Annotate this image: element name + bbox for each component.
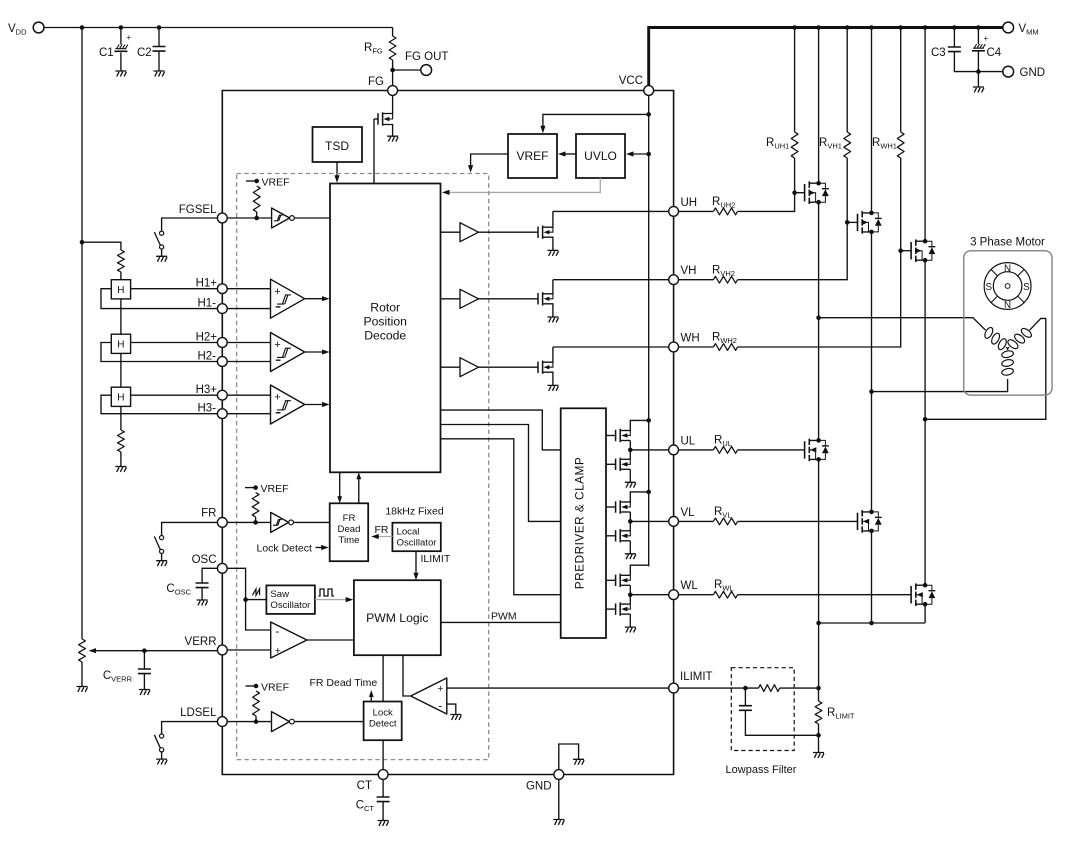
svg-text:VL: VL [681,507,696,519]
wire VCC to VREF [543,114,649,130]
svg-text:18kHz Fixed: 18kHz Fixed [385,506,444,518]
ground VDD resistor [77,687,88,692]
block Saw Oscillator U13 [266,585,315,614]
wire UH driver to gate [479,231,538,233]
wire RUH1 to gate [794,158,796,193]
node RLIMIT bottom [816,733,821,738]
svg-text:LDSEL: LDSEL [180,707,217,719]
resistor FGSEL pullup [253,186,260,212]
node VCC-VREF [646,112,651,117]
node VCC-UVLO [646,152,651,157]
ground C1 [115,71,126,76]
capacitor C2 [158,28,160,47]
comparator U5 hall 1 [271,279,305,318]
svg-text:H1-: H1- [197,298,216,310]
svg-text:PREDRIVER & CLAMP: PREDRIVER & CLAMP [572,457,586,589]
pin H1+ [217,284,227,294]
pin OSC [217,563,227,573]
switch LDSEL [160,734,164,738]
node FG [390,68,395,73]
wire ILIMIT to PWM logic [415,551,417,577]
svg-text:ILIMIT: ILIMIT [680,671,713,683]
wire UH gate lead [795,192,805,194]
svg-text:WH: WH [681,333,700,345]
wire predriver to VL lower gate [606,535,615,537]
wire FRDT to decode [358,475,360,503]
svg-text:Local: Local [397,527,420,538]
node RLIMIT top [816,686,821,691]
wire comp3 out [305,404,327,406]
wire VCC to UVLO [629,153,649,155]
wire U phase [818,202,820,440]
svg-text:C2: C2 [137,47,152,59]
wire UVLO to decoder (gray) [445,178,600,192]
wire comp1 - in [227,308,270,310]
block UVLO U3 [576,134,625,178]
ground QVL2 [625,554,636,559]
wire LDSEL to switch [162,722,218,734]
pin FGSEL [217,213,227,223]
wire OSC in [227,568,271,630]
svg-text:Lock: Lock [373,708,393,719]
node hall top [80,240,85,245]
svg-text:H: H [117,393,124,404]
wire VDD rail [44,27,392,29]
pin-wire VL external [679,520,714,522]
wire VL source down [871,531,873,623]
wire PWM logic to ilimit comp [403,655,411,696]
pin WH [669,342,679,352]
pin H2- [217,357,227,367]
pin GND [554,770,564,780]
terminal GND [1003,66,1014,77]
buffer FGSEL schmitt [272,208,290,228]
svg-text:-: - [275,624,279,638]
transistor Q7 WL low-side [910,586,912,603]
hall sensor H2 [111,334,130,353]
svg-text:GND: GND [526,781,552,793]
wire FR to switch [162,522,218,535]
block VREF U2 [508,134,557,178]
wire VH to pin [553,279,669,281]
svg-text:H: H [117,340,124,351]
wire FR buffered [294,521,330,523]
svg-text:Position: Position [364,315,407,329]
transistor Q6 VL low-side [857,513,859,530]
svg-text:3 Phase Motor: 3 Phase Motor [970,237,1045,249]
svg-text:UH: UH [681,197,698,209]
wire lock detect to FRDT [370,693,372,702]
wire decode to WH driver [441,366,461,368]
inductor motor W coil [1007,348,1009,350]
node VDD-C2 [157,25,162,30]
wire to GND terminal [978,71,1003,73]
ground CCT [378,821,389,826]
capacitor C4 [977,28,979,45]
transistor QVL1 upper [615,501,617,512]
wire predriver to WL upper gate [606,579,615,581]
svg-text:FR: FR [201,508,216,520]
capacitor CVERR [143,651,145,669]
pin-wire UL external [679,449,714,451]
svg-text:Detect: Detect [369,719,397,730]
ground CVERR [139,690,150,695]
wire decode to FRDT [339,472,341,500]
wire FGSEL in [227,217,271,219]
switch FGSEL [160,231,164,235]
wire saw to pwm (gray) [315,599,350,601]
switch FR [160,536,164,540]
pin H1- [217,304,227,314]
svg-text:C1: C1 [99,47,114,59]
dashed core boundary [237,174,489,760]
node FGSEL-vref [254,216,259,221]
svg-text:H2+: H2+ [196,332,218,344]
svg-text:FGSEL: FGSEL [179,204,217,216]
transistor Q3 VH high-side [871,28,873,213]
svg-text:PWM: PWM [491,611,517,623]
resistor RVH2 [713,276,737,283]
wire decode to UH driver [441,231,461,233]
terminal FG OUT [421,65,432,76]
node VDD-left [80,25,85,30]
ground hall [115,467,126,472]
resistor RUH1 [794,28,796,133]
node rail x=954.4 [952,25,957,30]
ground GND hook [573,759,584,764]
comparator U6 hall 2 [271,333,305,372]
svg-text:Rotor: Rotor [370,301,400,315]
wire decode to VH driver [441,298,461,300]
wire motor star [1006,347,1009,348]
pin ILIMIT [669,683,679,693]
wire UVLO to VREF [561,153,576,155]
wire RWH1 to gate [900,158,902,251]
wire TSD to decoder [336,162,338,180]
wire WH driver to gate [479,366,538,368]
node source rail V [869,621,874,626]
svg-text:+: + [127,33,132,42]
ground QWL2 [625,627,636,632]
wire VH driver to gate [479,298,538,300]
wire FGSEL to switch [162,218,218,231]
node VL mid [628,519,633,524]
block FR Dead Time U10 [330,503,369,561]
wire GND down [558,779,560,819]
svg-text:H1+: H1+ [196,278,218,290]
pin H3+ [217,390,227,400]
wire W phase [924,260,926,585]
transistor QWL2 lower [615,603,617,614]
pin UH [669,207,679,217]
wire UL source down [818,459,820,623]
node VH gate [845,220,850,225]
transistor QVH [537,293,539,304]
svg-text:Time: Time [339,535,360,546]
motor rotor [984,263,1031,310]
svg-text:GND: GND [1020,67,1046,79]
svg-text:FG: FG [368,76,384,88]
pin-wire UH external [679,210,714,212]
resistor VDD adjust [79,639,86,662]
resistor RLIMIT [818,688,820,701]
svg-text:S: S [1023,282,1030,293]
block Lock Detect U15 [364,702,402,741]
wire WH to pin [553,346,669,348]
block TSD U4 [313,127,363,162]
transistor Q5 UL low-side [804,441,806,458]
svg-text:H2-: H2- [197,351,216,363]
pin CT [378,770,388,780]
hall sensor H3 [111,387,130,406]
resistor LDSEL pullup [253,691,260,716]
wire decode to predriver B [441,425,561,522]
wire hall chain [120,299,122,334]
square wave glyph [319,589,335,596]
wire H3- loop [101,395,217,414]
svg-text:N: N [1004,264,1011,275]
svg-text:+: + [984,34,989,43]
wire RVH1 to gate [846,158,848,222]
hall sensor H1 [111,280,130,299]
node rail VL [646,490,651,495]
resistor RWL [713,591,737,598]
block Local Oscillator U11 [392,523,440,552]
resistor hall top [118,250,125,272]
wire W to motor route [925,318,1046,419]
wire OSC to saw osc [246,599,267,601]
resistor RWH2 [713,344,737,351]
svg-text:VH: VH [681,265,697,277]
node WL mid [628,592,633,597]
wire LDSEL in [227,721,271,723]
svg-text:VREF: VREF [261,682,289,694]
resistor RUH2 [713,208,737,215]
node rail x=818.6 [816,25,821,30]
resistor RVH1 [846,28,848,133]
wire H1- loop [101,289,217,309]
svg-text:VREF: VREF [262,177,290,189]
wire predriver to WL lower gate [606,608,615,610]
inductor motor V coil [1006,327,1033,351]
wire VCC internal rail [648,95,650,566]
ground QWH [547,385,558,390]
pin WL [669,590,679,600]
pin-wire VH external [679,279,714,281]
node UL mid [628,448,633,453]
svg-text:+: + [274,339,280,351]
transistor QWH [537,362,539,373]
node rail x=925.1 [923,25,928,30]
VREF stub FGSEL [246,180,257,182]
svg-text:UVLO: UVLO [584,149,617,163]
ground GND pin [553,820,564,825]
svg-text:Oscillator: Oscillator [270,600,311,611]
VREF stub FR [245,487,256,489]
node rail x=871.5 [869,25,874,30]
node W motor tap [923,417,928,422]
svg-text:WL: WL [681,580,699,592]
wire UL gate [738,449,805,451]
svg-text:H3+: H3+ [196,384,218,396]
pin LDSEL [217,717,227,727]
wire LDSEL buffered [294,721,363,723]
pin-wire WH external [679,346,714,348]
ground C2 [154,71,165,76]
buffer UH driver [460,223,479,242]
dashed lowpass box [731,668,794,751]
wire comp1 out [305,298,327,300]
transistor QVL2 lower [615,530,617,541]
wire FG out [393,69,421,71]
svg-text:UL: UL [681,435,696,447]
comparator U16 ilimit [411,678,447,714]
VREF stub LDSEL [246,685,257,687]
wire WL source down [924,604,926,623]
svg-text:Oscillator: Oscillator [397,538,438,549]
svg-text:+: + [274,286,280,298]
terminal VMM [1003,22,1014,33]
node VDD-C1 [119,25,124,30]
buffer FR schmitt [271,512,289,532]
ground C4 [973,87,984,92]
wire source rail to RLIMIT [818,623,820,688]
node lowpass in [743,686,748,691]
svg-text:S: S [986,282,993,293]
svg-text:C4: C4 [987,47,1002,59]
wire VERR external [91,650,217,652]
svg-text:PWM Logic: PWM Logic [366,611,428,625]
wire comp3 - in [227,413,270,415]
IC boundary [222,91,673,775]
wire comp2 + in [227,342,270,344]
svg-text:+: + [275,645,281,657]
block PWM Logic U12 [354,580,441,655]
resistor RUL [713,447,737,454]
pin-wire WL external [679,594,714,596]
resistor RFG [392,28,394,37]
ground ilimit comp [450,715,461,720]
svg-text:N: N [1004,300,1011,311]
block Rotor Position Decode U8 [330,184,441,473]
wire UL to pin [630,449,668,451]
wire FG gate [374,118,378,120]
pin VH [669,275,679,285]
node rail UL [646,418,651,423]
wire H2+ out [131,342,218,344]
buffer VH driver [460,289,479,308]
svg-text:VCC: VCC [619,75,643,87]
wire comp1 + in [227,288,270,290]
wire H3+ out [131,394,218,396]
buffer WH driver [460,358,479,377]
svg-text:ILIMIT: ILIMIT [421,553,451,565]
node WH gate [898,248,903,253]
ground RLIMIT [813,753,824,758]
pin VL [669,517,679,527]
pin H3- [217,409,227,419]
svg-text:Lock Detect: Lock Detect [257,543,313,555]
svg-text:C3: C3 [931,47,946,59]
resistor RVL [713,518,737,525]
node V motor tap [869,389,874,394]
transistor QUH [537,227,539,238]
wire ILIMIT external [679,687,759,689]
wire VERR in [227,649,271,651]
wire predriver to VL upper gate [606,506,615,508]
wire VDD left drop 2 [81,242,83,639]
svg-text:FR Dead Time: FR Dead Time [310,677,378,689]
node source rail U [816,621,821,626]
pin VERR [217,645,227,655]
svg-text:CT: CT [357,780,372,792]
wire U to motor [819,318,986,331]
wire VCC to VMM rail [649,28,1003,86]
node U motor tap [816,315,821,320]
inductor motor U coil [983,326,1008,351]
wire ilimit comp - to gnd [447,704,456,714]
capacitor CCT [382,779,384,797]
pin FR [217,518,227,528]
capacitor COSC [202,568,217,583]
sawtooth glyph [252,589,259,595]
pin H2+ [217,338,227,348]
transistor Q2 UH high-side [818,28,820,184]
wire PWM logic to lock detect [382,655,384,701]
wire GND hook [559,744,579,770]
comparator U14 pwm [271,622,307,658]
svg-text:Decode: Decode [364,329,406,343]
wire hall chain [120,353,122,387]
svg-text:Dead: Dead [338,524,361,535]
wire PWM [441,621,561,623]
wire WH gate lead [901,250,911,252]
pin FG [388,86,398,96]
ground Q1 [387,136,398,141]
svg-text:+: + [274,392,280,404]
node C3-C4-GND [976,69,981,74]
wire H1+ out [131,288,218,290]
wire predriver to UL lower gate [606,463,615,465]
resistor lowpass [759,685,780,692]
capacitor C3 [953,28,955,48]
node rail x=794.6 [792,25,797,30]
node OSC-saw [243,597,248,602]
ground QUH [547,250,558,255]
wire comp2 out [305,351,327,353]
pin UL [669,445,679,455]
wire VH gate lead [847,221,857,223]
wire UH to pin [553,210,669,212]
wire ilimit comp + input [447,687,669,689]
ground COSC [197,600,208,605]
svg-text:VREF: VREF [261,483,289,495]
wire comp3 + in [227,394,270,396]
transistor Q4 WH high-side [924,28,926,242]
node FR-vref [253,520,258,525]
svg-text:Saw: Saw [270,589,289,600]
pin VCC [644,86,654,96]
resistor RWH1 [900,28,902,133]
wire comp2 - in [227,361,270,363]
wire comparator out [307,639,354,641]
svg-text:VERR: VERR [185,636,217,648]
svg-text:H: H [117,285,124,296]
resistor FR pullup [252,493,259,518]
svg-text:H3-: H3- [197,403,216,415]
comparator U7 hall 3 [271,385,305,424]
wire FGSEL buffered [294,217,330,219]
